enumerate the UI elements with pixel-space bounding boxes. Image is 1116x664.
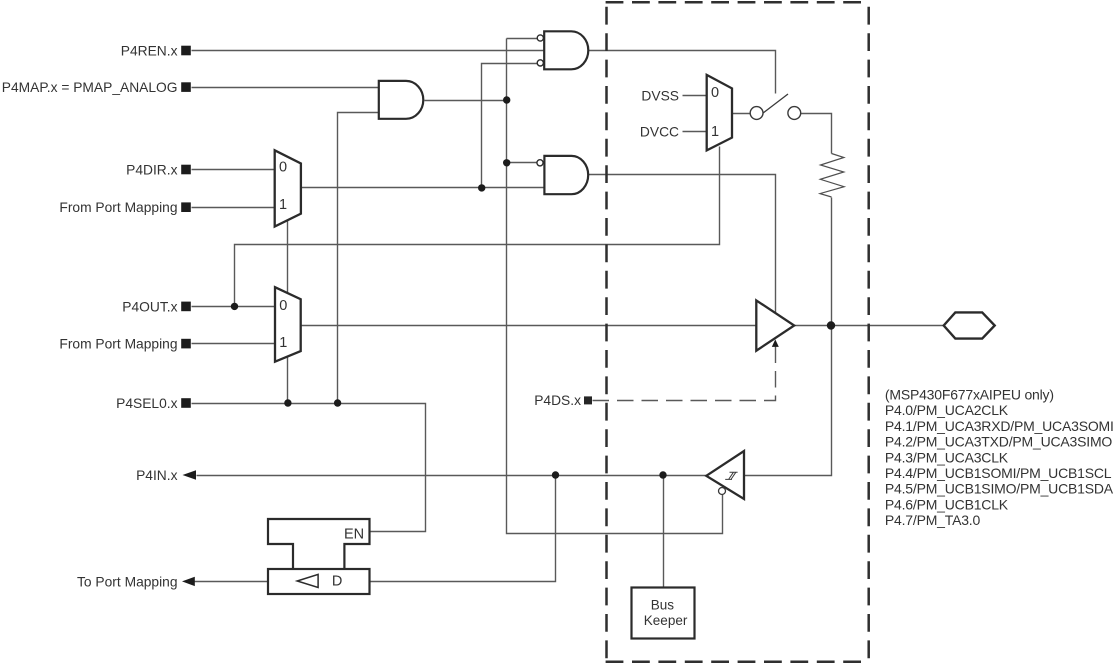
terminal square P4REN.x xyxy=(181,46,191,56)
wire P4DIR.x to mux M1 xyxy=(192,169,275,171)
latch clock triangle xyxy=(297,574,318,587)
svg-text:1: 1 xyxy=(279,335,287,351)
wire resistor R1 to pad net xyxy=(745,198,832,476)
switch S1 lever xyxy=(763,94,788,113)
wire U2 bubble input xyxy=(507,162,538,164)
svg-text:From Port Mapping: From Port Mapping xyxy=(59,337,177,352)
svg-text:P4DS.x: P4DS.x xyxy=(534,393,581,408)
wire U1 output to switch control xyxy=(589,51,776,94)
wire P4IN net to bus keeper xyxy=(663,476,665,588)
junction dot P4SEL0 net 2 xyxy=(334,399,341,406)
terminal square From Port Mapping 1 xyxy=(181,202,191,212)
junction dot P4IN net 1 xyxy=(552,471,559,478)
svg-text:P4OUT.x: P4OUT.x xyxy=(122,300,177,315)
wire P4OUT.x to mux M2 xyxy=(192,306,276,308)
arrow P4IN.x xyxy=(183,470,197,479)
svg-text:0: 0 xyxy=(711,85,719,101)
wire P4IN net to latch D xyxy=(370,476,556,582)
switch S1 left contact xyxy=(750,107,763,120)
svg-text:D: D xyxy=(332,574,342,590)
terminal square P4DS.x xyxy=(584,396,592,404)
junction node A dot xyxy=(503,96,510,103)
dashed box module boundary xyxy=(606,2,869,662)
mux M1 direction select xyxy=(275,150,301,226)
latch D box xyxy=(268,569,370,594)
svg-text:EN: EN xyxy=(344,527,364,543)
svg-text:P4.1/PM_UCA3RXD/PM_UCA3SOMI: P4.1/PM_UCA3RXD/PM_UCA3SOMI xyxy=(885,418,1114,434)
wire U2 output to buffer enable xyxy=(589,175,776,313)
pin function text block xyxy=(885,387,1114,529)
gate U1 NAND-style REN gate xyxy=(544,31,588,69)
wire P4MAP.x to AND U3 xyxy=(192,87,379,89)
junction dot DIR net xyxy=(478,184,485,191)
svg-text:Keeper: Keeper xyxy=(644,613,688,628)
wire P4SEL0 to AND U3 input xyxy=(338,113,379,404)
gate U3 AND P4MAP/P4SEL0 xyxy=(379,81,424,119)
svg-text:P4.2/PM_UCA3TXD/PM_UCA3SIMO: P4.2/PM_UCA3TXD/PM_UCA3SIMO xyxy=(885,434,1113,450)
svg-text:P4SEL0.x: P4SEL0.x xyxy=(116,396,177,411)
wire P4DS.x dashed drive-strength xyxy=(593,347,776,401)
svg-text:1: 1 xyxy=(279,197,287,213)
svg-text:P4IN.x: P4IN.x xyxy=(136,468,178,483)
pad hexagon P4 pin xyxy=(944,312,995,338)
svg-text:P4MAP.x = PMAP_ANALOG: P4MAP.x = PMAP_ANALOG xyxy=(2,80,178,95)
junction dot pad net xyxy=(827,321,835,329)
svg-text:P4.5/PM_UCB1SIMO/PM_UCB1SDA: P4.5/PM_UCB1SIMO/PM_UCB1SDA xyxy=(885,481,1114,497)
wire mux select vertical P4SEL0 xyxy=(287,217,289,404)
arrow To Port Mapping xyxy=(182,577,195,586)
wire buffer U4 output to pad xyxy=(795,325,944,327)
U5 hysteresis symbol xyxy=(725,472,737,479)
resistor R1 pull resistor xyxy=(820,154,844,198)
switch S1 right contact xyxy=(788,107,801,120)
wire P4OUT to pull-select net xyxy=(235,147,720,307)
wire P4REN.x to gate U1 xyxy=(192,50,545,52)
svg-text:P4REN.x: P4REN.x xyxy=(121,44,178,59)
svg-text:P4DIR.x: P4DIR.x xyxy=(126,163,177,178)
gate U2 output-enable gate xyxy=(544,156,588,194)
wire M1 output to U2 xyxy=(301,187,545,189)
buffer U4 output driver xyxy=(756,300,794,350)
wire switch to resistor R1 xyxy=(801,114,832,154)
mux M2 output select xyxy=(275,287,301,362)
wire DVSS to mux M3 xyxy=(683,95,707,97)
terminal square P4SEL0.x xyxy=(181,398,191,408)
svg-text:P4.3/PM_UCA3CLK: P4.3/PM_UCA3CLK xyxy=(885,449,1009,465)
svg-text:DVCC: DVCC xyxy=(640,125,679,140)
buffer U5 input Schmitt trigger xyxy=(706,451,744,499)
wire U1 bottom bubble from DIR net xyxy=(482,64,538,188)
terminal square P4MAP.x xyxy=(181,82,191,92)
mux M3 pull direction DVSS/DVCC xyxy=(707,75,732,150)
svg-text:(MSP430F677xAIPEU only): (MSP430F677xAIPEU only) xyxy=(885,387,1054,403)
wire latch D to To Port Mapping xyxy=(195,581,269,583)
svg-text:1: 1 xyxy=(711,124,719,140)
svg-text:Bus: Bus xyxy=(651,598,675,613)
terminal square From Port Mapping 2 xyxy=(181,339,191,349)
bus keeper block xyxy=(632,588,695,639)
terminal square P4DIR.x xyxy=(181,165,191,175)
wire P4SEL0.x row to latch EN xyxy=(192,404,426,532)
terminal square P4OUT.x xyxy=(181,302,191,312)
svg-text:To Port Mapping: To Port Mapping xyxy=(77,575,177,590)
wire M3 output to switch xyxy=(733,113,751,115)
svg-text:0: 0 xyxy=(279,160,287,176)
junction dot P4OUT net xyxy=(231,303,238,310)
svg-text:DVSS: DVSS xyxy=(641,89,679,104)
U5 enable bubble xyxy=(719,488,726,495)
svg-text:From Port Mapping: From Port Mapping xyxy=(59,200,177,215)
U1 input bubble top xyxy=(537,35,543,41)
svg-text:P4.0/PM_UCA2CLK: P4.0/PM_UCA2CLK xyxy=(885,402,1009,418)
wire analog net vertical x=506.7 xyxy=(507,39,723,534)
U2 input bubble xyxy=(537,160,543,166)
wire M2 output to buffer U4 xyxy=(301,325,757,327)
svg-text:P4.6/PM_UCB1CLK: P4.6/PM_UCB1CLK xyxy=(885,496,1009,512)
U1 input bubble bottom xyxy=(537,60,543,66)
svg-text:0: 0 xyxy=(279,298,287,314)
wire From Port Mapping to mux M2 xyxy=(192,343,276,345)
wire U3 output to node A xyxy=(425,100,507,102)
junction dot U2 bubble net xyxy=(503,159,510,166)
U4 drive strength arrow xyxy=(772,339,779,347)
wire node A to U1 top bubble xyxy=(507,38,538,40)
wire From Port Mapping to mux M1 xyxy=(192,207,275,209)
wire DVCC to mux M3 xyxy=(683,131,707,133)
svg-text:P4.7/PM_TA3.0: P4.7/PM_TA3.0 xyxy=(885,512,981,528)
junction dot P4IN net 2 xyxy=(659,471,666,478)
wire Schmitt U5 output to P4IN.x xyxy=(197,475,707,477)
svg-text:P4.4/PM_UCB1SOMI/PM_UCB1SCL: P4.4/PM_UCB1SOMI/PM_UCB1SCL xyxy=(885,465,1112,481)
junction dot P4SEL0 net 1 xyxy=(284,399,291,406)
latch EN box xyxy=(268,519,370,569)
